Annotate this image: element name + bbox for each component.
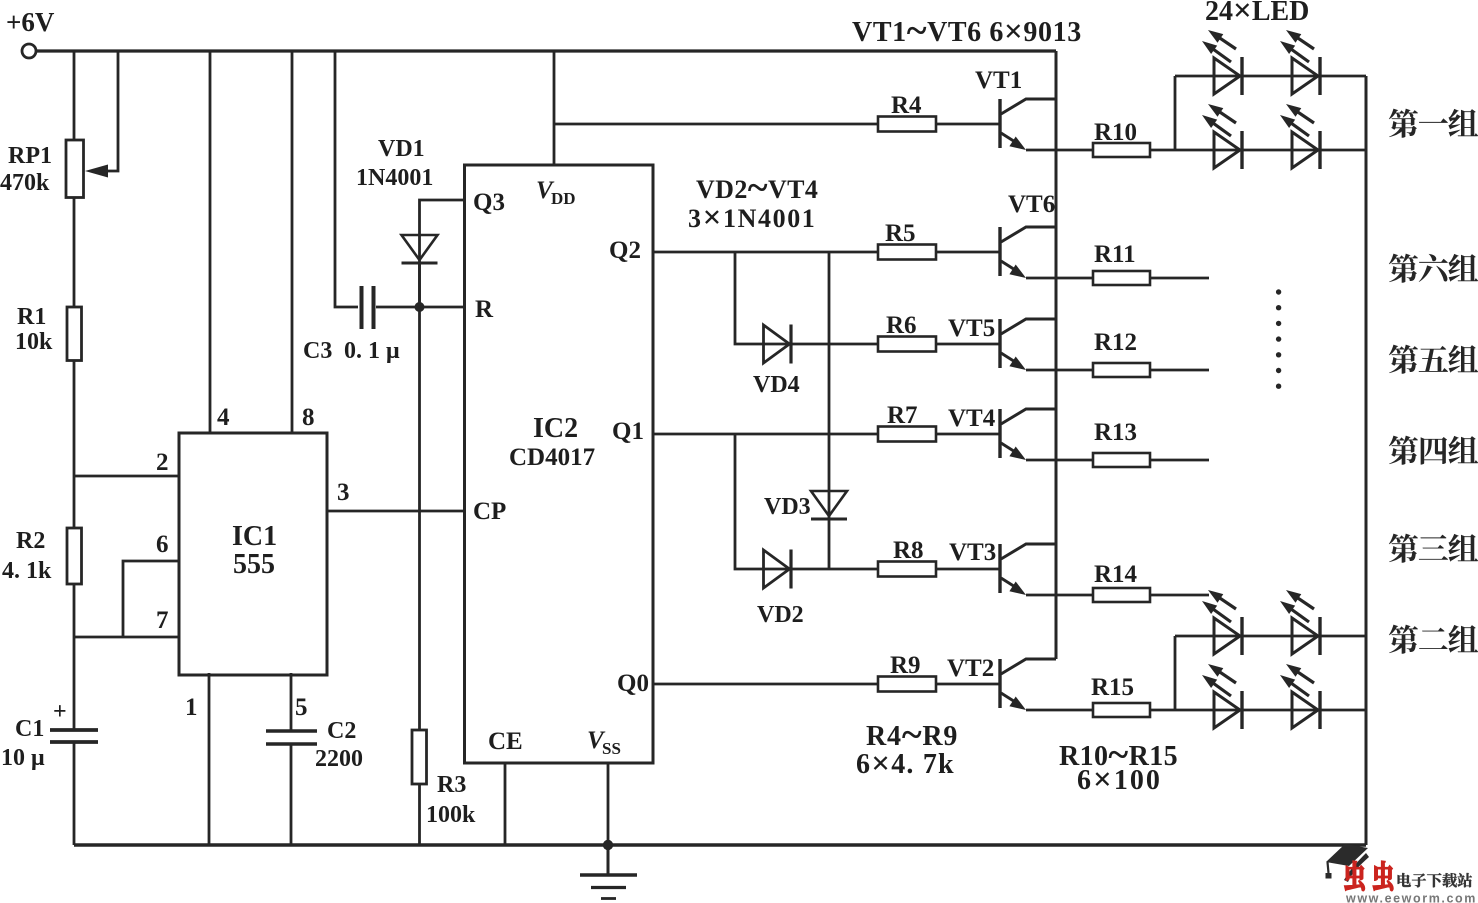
wire R12 output stub (1150, 369, 1209, 372)
wire IC2 VSS to bottom rail (607, 763, 610, 845)
diode VD4 (764, 325, 790, 363)
svg-text:IC1: IC1 (232, 521, 277, 552)
wire C2 to bottom rail (290, 744, 293, 845)
wire IC1 pin 2 (74, 475, 179, 478)
wire VD1 to node R (418, 263, 421, 307)
transistor VT4 (998, 409, 1001, 458)
node VSS ground junction (603, 840, 613, 850)
第三组 group 3 label (1389, 534, 1418, 563)
ground (607, 845, 610, 875)
transistor VT3 (998, 544, 1001, 593)
wire R15 to LED group 2 (1150, 709, 1175, 712)
svg-text:CE: CE (488, 728, 523, 755)
svg-text:R5: R5 (885, 220, 916, 247)
svg-text:10k: 10k (15, 329, 53, 355)
RP1 wiper arrow (85, 165, 108, 178)
svg-text:R6: R6 (886, 312, 917, 339)
svg-text:VT1: VT1 (975, 67, 1022, 94)
svg-text:5: 5 (295, 694, 308, 721)
capacitor C1 (50, 728, 98, 732)
watermark 虫虫 logo text (1345, 861, 1365, 890)
svg-text:555: 555 (233, 549, 275, 580)
LED group 2 top-left (1214, 618, 1240, 654)
svg-text:4. 1k: 4. 1k (2, 558, 52, 584)
resistor R10 (1093, 143, 1150, 157)
第二组 group 2 label (1389, 625, 1418, 654)
LED group 2 bottom-right (1292, 692, 1318, 728)
svg-text:R7: R7 (887, 402, 918, 429)
resistor R6 (878, 337, 936, 352)
wire top +6V supply rail (36, 49, 1056, 52)
IC1 555 timer box (179, 433, 327, 675)
svg-text:RP1: RP1 (8, 143, 52, 169)
transistor VT1 (998, 99, 1001, 148)
resistor R1 (67, 307, 82, 361)
resistor R4 (878, 117, 936, 132)
LED group 1 top-right (1292, 58, 1318, 94)
wire R7 to VT4 base (936, 433, 1000, 436)
svg-text:R2: R2 (16, 528, 45, 554)
capacitor C2 (266, 729, 317, 733)
wire R3 to bottom rail (418, 784, 421, 845)
wire RP1 wiper branch (102, 51, 118, 171)
svg-text:R9: R9 (890, 652, 921, 679)
LED group 1 bottom-left (1214, 132, 1240, 168)
svg-text:VT6: VT6 (1008, 191, 1055, 218)
wire Q1 branch to VD2 (735, 434, 878, 569)
svg-text:CD4017: CD4017 (509, 444, 595, 471)
wire LED group 1 bottom branch (1175, 149, 1366, 152)
resistor R11 (1093, 271, 1150, 285)
wire R9 to VT2 base (936, 683, 1000, 686)
第一组 group 1 label (1389, 109, 1418, 138)
svg-text:Q3: Q3 (473, 189, 505, 216)
wire R6 to VT5 base (936, 343, 1000, 346)
svg-text:SS: SS (602, 739, 621, 758)
svg-text:6×​4. 7k: 6×​4. 7k (856, 746, 955, 782)
potentiometer RP1 (66, 140, 84, 198)
svg-text:4: 4 (217, 404, 230, 431)
watermark 电子下载站 text (1398, 873, 1411, 887)
svg-text:470k: 470k (0, 170, 50, 196)
wire Q2 branch to VD3 (828, 252, 831, 519)
svg-text:R14: R14 (1094, 561, 1138, 588)
svg-text:6: 6 (156, 531, 169, 558)
svg-text:C1: C1 (15, 716, 44, 742)
svg-text:R15: R15 (1091, 674, 1134, 701)
transistor VT2 (998, 659, 1001, 708)
svg-text:VD4: VD4 (753, 372, 800, 398)
svg-text:3×​1N4001: 3×​1N4001 (688, 200, 816, 236)
resistor R7 (878, 427, 936, 442)
wire R11 output stub (1150, 277, 1209, 280)
LED group 1 bottom-right (1292, 132, 1318, 168)
dotted continuation marks (1276, 289, 1281, 294)
wire VD3 to R8 row (828, 519, 831, 569)
svg-text:www.eeworm.com: www.eeworm.com (1345, 892, 1477, 903)
diode VD1 (402, 235, 438, 260)
svg-text:R8: R8 (893, 537, 924, 564)
wire LED group 1 top branch (1175, 75, 1366, 78)
diode VD2 (764, 550, 790, 588)
wire IC1 pin 3 to IC2 CP (327, 510, 464, 513)
svg-text:10 μ: 10 μ (1, 745, 45, 771)
resistor R3 (412, 730, 427, 784)
wire IC1 pin 7 (74, 636, 179, 639)
wire LED group 2 bottom branch (1175, 709, 1366, 712)
第四组 group 4 label (1389, 436, 1418, 465)
resistor R5 (878, 245, 936, 260)
svg-text:Q1: Q1 (612, 418, 644, 445)
wire C3 to node R (376, 306, 464, 309)
svg-text:C2: C2 (327, 718, 356, 744)
resistor R2 (67, 528, 82, 584)
svg-text:VT3: VT3 (949, 539, 996, 566)
svg-text:R13: R13 (1094, 419, 1137, 446)
svg-text:+6V: +6V (6, 7, 55, 37)
wire C3 branch from rail (335, 51, 358, 307)
svg-text:VD1: VD1 (378, 136, 425, 162)
watermark graduation cap icon (1326, 844, 1368, 866)
wire LED group 2 top branch (1175, 635, 1366, 638)
resistor R15 (1093, 703, 1150, 717)
svg-text:7: 7 (156, 607, 169, 634)
diode VD3 (811, 491, 847, 516)
resistor R13 (1093, 453, 1150, 467)
svg-text:100k: 100k (426, 802, 476, 828)
node R junction (415, 302, 425, 312)
wire bottom ground rail (74, 843, 1366, 846)
LED group 2 top-right (1292, 618, 1318, 654)
wire IC1 pin 1 to bottom rail (208, 673, 211, 845)
wire R8 to VT3 base (936, 568, 1000, 571)
resistor R8 (878, 562, 936, 577)
wire R13 output stub (1150, 459, 1209, 462)
resistor R14 (1093, 588, 1150, 602)
wire R2 to C1 (73, 584, 76, 730)
svg-text:VT2: VT2 (947, 655, 994, 682)
wire IC2 VDD to supply rail (553, 51, 556, 165)
wire VT3 emitter row (1026, 594, 1093, 597)
capacitor C3 (360, 286, 364, 329)
wire IC2 CE to bottom rail (504, 763, 507, 845)
wire RP1 to R1 (73, 198, 76, 308)
svg-text:C3: C3 (303, 338, 332, 364)
svg-text:24×​LED: 24×​LED (1205, 0, 1309, 29)
LED group 1 top-left (1214, 58, 1240, 94)
IC2 CD4017 box (465, 165, 654, 763)
wire collector supply rail (1055, 51, 1058, 659)
svg-text:DD: DD (551, 189, 576, 208)
+6V supply terminal (22, 44, 36, 58)
svg-text:R1: R1 (17, 304, 46, 330)
wire LED group 1 left rail (1174, 76, 1177, 150)
wire LED right rail to bottom (1365, 76, 1368, 845)
wire Q2 branch to VD4 (735, 252, 878, 344)
svg-text:R10: R10 (1094, 119, 1137, 146)
svg-text:VD3: VD3 (764, 494, 811, 520)
svg-text:Q0: Q0 (617, 670, 649, 697)
svg-text:6×​100: 6×​100 (1077, 762, 1162, 798)
svg-text:0. 1 μ: 0. 1 μ (344, 338, 400, 364)
wire IC2 Q3 to VD1 (420, 200, 465, 307)
wire R5 to VT6 base (936, 251, 1000, 254)
transistor VT6 (998, 227, 1001, 276)
resistor R12 (1093, 363, 1150, 377)
svg-text:R11: R11 (1094, 241, 1136, 268)
svg-text:VD2: VD2 (757, 602, 804, 628)
svg-text:R12: R12 (1094, 329, 1137, 356)
svg-text:3: 3 (337, 479, 350, 506)
第五组 group 5 label (1389, 345, 1418, 374)
wire IC2 Q0 to R9 (653, 683, 878, 686)
svg-text:2: 2 (156, 449, 169, 476)
svg-text:IC2: IC2 (533, 413, 578, 444)
wire IC2 Q1 to R7 (653, 433, 878, 436)
第六组 group 6 label (1389, 254, 1418, 283)
transistor VT5 (998, 319, 1001, 368)
wire node R to R3 (418, 307, 421, 730)
svg-text:2200: 2200 (315, 746, 363, 772)
svg-text:+: + (53, 699, 67, 725)
wire VT1 emitter row (1026, 149, 1093, 152)
svg-text:CP: CP (473, 498, 506, 525)
wire IC1 pin 5 to C2 (290, 673, 293, 731)
wire R10 to LED group 1 (1150, 149, 1175, 152)
svg-text:VT4: VT4 (948, 405, 996, 432)
wire R1 to R2 (73, 361, 76, 529)
wire IC1 pin 6 bracket (123, 561, 179, 637)
svg-text:R4: R4 (891, 92, 922, 119)
svg-text:VT1~​VT6 6×​9013: VT1~​VT6 6×​9013 (852, 10, 1082, 52)
svg-text:R: R (475, 296, 494, 323)
wire VT4 emitter row (1026, 459, 1093, 462)
wire R14 output stub (1150, 594, 1209, 597)
LED group 2 bottom-left (1214, 692, 1240, 728)
svg-text:1: 1 (185, 694, 198, 721)
wire VT2 emitter row (1026, 709, 1093, 712)
svg-text:VT5: VT5 (948, 315, 995, 342)
wire LED group 2 left rail (1174, 636, 1177, 710)
wire R4 to VT1 base (936, 123, 1000, 126)
svg-text:8: 8 (302, 404, 315, 431)
svg-text:1N4001: 1N4001 (356, 165, 433, 191)
wire IC1 pin 8 (291, 51, 294, 432)
wire VT5 emitter row (1026, 369, 1093, 372)
wire C1 to bottom rail (73, 742, 76, 845)
resistor R9 (878, 677, 936, 692)
svg-text:R3: R3 (437, 772, 466, 798)
wire IC1 pin 4 (209, 51, 212, 432)
wire IC2 Q2 to R5 (653, 251, 878, 254)
svg-text:Q2: Q2 (609, 237, 641, 264)
wire VT6 emitter row (1026, 277, 1093, 280)
wire left vertical branch from rail (73, 51, 76, 140)
wire VT1 base row from VDD line (554, 123, 878, 126)
